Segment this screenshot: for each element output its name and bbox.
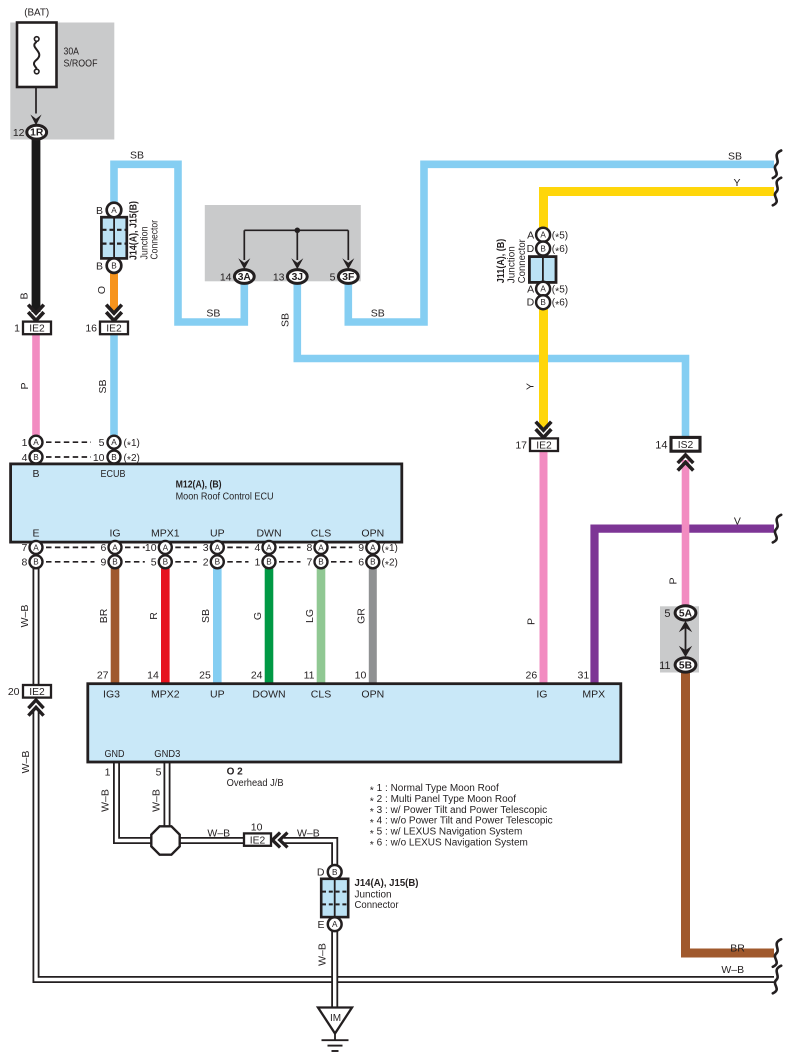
svg-text:8: 8 xyxy=(21,557,27,569)
svg-text:W–B: W–B xyxy=(297,828,320,840)
svg-text:12: 12 xyxy=(13,127,25,139)
svg-text:IE2: IE2 xyxy=(29,324,45,335)
svg-text:A: A xyxy=(527,229,534,241)
svg-text:9: 9 xyxy=(358,542,364,554)
svg-text:IE2: IE2 xyxy=(536,440,552,451)
svg-text:(*6): (*6) xyxy=(552,298,568,311)
svg-text:CLS: CLS xyxy=(311,527,331,539)
svg-text:DOWN: DOWN xyxy=(252,689,285,701)
svg-text:UP: UP xyxy=(210,527,225,539)
svg-text:A: A xyxy=(163,543,169,552)
svg-text:B: B xyxy=(19,292,31,299)
svg-text:B: B xyxy=(32,468,39,480)
svg-text:Overhead J/B: Overhead J/B xyxy=(227,778,284,789)
svg-text:SB: SB xyxy=(97,379,109,393)
svg-text:GND3: GND3 xyxy=(154,748,180,760)
svg-text:A: A xyxy=(318,543,324,552)
svg-text:B: B xyxy=(33,453,39,462)
svg-text:B: B xyxy=(318,558,324,567)
svg-text:MPX2: MPX2 xyxy=(151,689,180,701)
svg-text:IE2: IE2 xyxy=(29,687,45,698)
svg-text:5: 5 xyxy=(330,271,336,283)
svg-text:10: 10 xyxy=(355,670,367,682)
svg-text:1: 1 xyxy=(14,323,20,335)
svg-text:14: 14 xyxy=(147,670,159,682)
svg-text:3J: 3J xyxy=(292,272,304,283)
svg-text:1R: 1R xyxy=(30,128,44,139)
svg-text:B: B xyxy=(540,298,546,307)
svg-text:14: 14 xyxy=(655,439,667,451)
svg-text:B: B xyxy=(33,558,39,567)
svg-text:Junction: Junction xyxy=(355,890,392,901)
svg-text:GND: GND xyxy=(105,748,125,760)
svg-text:(*2): (*2) xyxy=(382,558,398,571)
svg-text:M12(A), (B): M12(A), (B) xyxy=(176,480,222,491)
svg-text:DWN: DWN xyxy=(256,527,281,539)
svg-text:W–B: W–B xyxy=(151,789,163,812)
svg-text:11: 11 xyxy=(659,660,670,672)
svg-text:J14(A), J15(B): J14(A), J15(B) xyxy=(129,201,140,260)
svg-text:O 2: O 2 xyxy=(227,766,244,777)
svg-text:8: 8 xyxy=(306,542,312,554)
svg-text:16: 16 xyxy=(85,323,97,335)
svg-text:Connector: Connector xyxy=(355,900,400,911)
svg-text:A: A xyxy=(266,543,272,552)
svg-text:G: G xyxy=(252,612,264,620)
svg-text:B: B xyxy=(215,558,221,567)
svg-text:P: P xyxy=(19,382,31,389)
svg-text:(*5): (*5) xyxy=(552,284,568,297)
svg-text:13: 13 xyxy=(273,271,285,283)
svg-text:5: 5 xyxy=(151,557,157,569)
svg-text:A: A xyxy=(111,438,117,447)
svg-text:3F: 3F xyxy=(342,272,354,283)
svg-text:1: 1 xyxy=(254,557,260,569)
svg-text:1: 1 xyxy=(105,766,111,778)
svg-text:W–B: W–B xyxy=(721,964,744,976)
svg-text:A: A xyxy=(33,438,39,447)
svg-text:4: 4 xyxy=(22,452,28,464)
svg-text:SB: SB xyxy=(371,308,385,320)
svg-text:D: D xyxy=(527,297,535,309)
svg-text:A: A xyxy=(370,543,376,552)
svg-text:OPN: OPN xyxy=(361,527,384,539)
svg-text:11: 11 xyxy=(304,670,315,682)
svg-text:1: 1 xyxy=(22,437,28,449)
svg-text:BR: BR xyxy=(98,608,110,623)
svg-text:5A: 5A xyxy=(679,608,693,619)
svg-text:A: A xyxy=(332,920,338,929)
svg-text:14: 14 xyxy=(220,271,232,283)
svg-text:B: B xyxy=(540,244,546,253)
svg-text:B: B xyxy=(112,558,118,567)
svg-text:W–B: W–B xyxy=(20,751,32,774)
svg-text:OPN: OPN xyxy=(361,689,384,701)
svg-text:IG: IG xyxy=(109,527,120,539)
svg-text:BR: BR xyxy=(730,943,745,955)
svg-text:A: A xyxy=(112,543,118,552)
svg-text:SB: SB xyxy=(728,151,742,163)
svg-text:J11(A), (B): J11(A), (B) xyxy=(496,239,507,284)
svg-text:IG3: IG3 xyxy=(103,689,120,701)
svg-text:7: 7 xyxy=(21,542,27,554)
svg-text:CLS: CLS xyxy=(311,689,331,701)
svg-text:B: B xyxy=(266,558,272,567)
svg-text:2: 2 xyxy=(203,557,209,569)
svg-text:Y: Y xyxy=(525,383,537,390)
svg-text:SB: SB xyxy=(206,308,220,320)
svg-text:A: A xyxy=(33,543,39,552)
svg-text:B: B xyxy=(370,558,376,567)
svg-text:GR: GR xyxy=(356,608,368,624)
svg-text:* 6 : w/o LEXUS Navigation Sys: * 6 : w/o LEXUS Navigation System xyxy=(370,838,528,851)
svg-text:IE2: IE2 xyxy=(250,835,266,846)
svg-text:6: 6 xyxy=(358,557,364,569)
svg-text:V: V xyxy=(734,516,741,528)
svg-text:W–B: W–B xyxy=(317,943,329,966)
svg-text:D: D xyxy=(317,867,325,879)
svg-text:Moon Roof Control ECU: Moon Roof Control ECU xyxy=(176,492,274,503)
svg-text:B: B xyxy=(96,260,103,272)
svg-text:B: B xyxy=(111,262,117,271)
svg-text:5B: 5B xyxy=(679,660,692,671)
svg-text:(*1): (*1) xyxy=(382,543,398,556)
svg-text:B: B xyxy=(96,205,103,217)
svg-text:17: 17 xyxy=(515,439,527,451)
svg-text:4: 4 xyxy=(254,542,260,554)
svg-text:(*1): (*1) xyxy=(124,438,140,451)
svg-text:A: A xyxy=(540,231,546,240)
svg-text:5: 5 xyxy=(664,608,670,620)
svg-text:25: 25 xyxy=(199,670,211,682)
svg-text:W–B: W–B xyxy=(100,789,112,812)
svg-text:A: A xyxy=(527,283,534,295)
svg-text:9: 9 xyxy=(100,557,106,569)
svg-text:(BAT): (BAT) xyxy=(24,7,49,19)
svg-text:26: 26 xyxy=(526,670,538,682)
svg-text:MPX1: MPX1 xyxy=(151,527,180,539)
svg-text:20: 20 xyxy=(8,686,20,698)
svg-text:A: A xyxy=(111,206,117,215)
svg-text:24: 24 xyxy=(251,670,263,682)
svg-text:O: O xyxy=(96,286,108,294)
svg-text:(*5): (*5) xyxy=(552,230,568,243)
svg-text:5: 5 xyxy=(99,437,105,449)
svg-text:IM: IM xyxy=(330,1013,341,1024)
svg-text:3A: 3A xyxy=(238,272,252,283)
svg-text:IS2: IS2 xyxy=(678,440,694,451)
svg-text:Connector: Connector xyxy=(150,219,161,259)
svg-text:30A: 30A xyxy=(64,46,80,58)
svg-text:A: A xyxy=(215,543,221,552)
svg-text:Junction: Junction xyxy=(507,246,518,283)
svg-text:SB: SB xyxy=(280,313,292,327)
svg-text:IG: IG xyxy=(536,689,547,701)
svg-text:31: 31 xyxy=(578,670,590,682)
svg-text:R: R xyxy=(148,612,160,620)
svg-text:3: 3 xyxy=(203,542,209,554)
svg-text:S/ROOF: S/ROOF xyxy=(64,58,98,70)
svg-text:LG: LG xyxy=(304,609,316,623)
svg-text:W–B: W–B xyxy=(207,828,230,840)
svg-text:10: 10 xyxy=(251,822,263,834)
svg-text:IE2: IE2 xyxy=(106,324,122,335)
svg-text:B: B xyxy=(111,453,117,462)
svg-text:UP: UP xyxy=(210,689,225,701)
svg-text:P: P xyxy=(526,618,538,625)
svg-text:10: 10 xyxy=(145,542,157,554)
svg-text:SB: SB xyxy=(200,609,212,623)
svg-text:6: 6 xyxy=(100,542,106,554)
svg-text:27: 27 xyxy=(97,670,109,682)
svg-text:10: 10 xyxy=(93,452,105,464)
svg-text:W–B: W–B xyxy=(19,605,31,628)
svg-text:ECUB: ECUB xyxy=(101,468,126,480)
svg-text:E: E xyxy=(317,919,324,931)
svg-text:5: 5 xyxy=(156,766,162,778)
svg-text:E: E xyxy=(32,527,39,539)
svg-text:A: A xyxy=(540,285,546,294)
svg-text:MPX: MPX xyxy=(582,689,605,701)
svg-text:(*6): (*6) xyxy=(552,244,568,257)
svg-text:B: B xyxy=(163,558,169,567)
svg-text:Connector: Connector xyxy=(517,239,528,284)
svg-text:J14(A), J15(B): J14(A), J15(B) xyxy=(355,878,419,889)
svg-text:SB: SB xyxy=(130,150,144,162)
svg-text:7: 7 xyxy=(306,557,312,569)
svg-text:Y: Y xyxy=(733,177,740,189)
svg-text:P: P xyxy=(668,577,680,584)
svg-text:B: B xyxy=(332,868,338,877)
